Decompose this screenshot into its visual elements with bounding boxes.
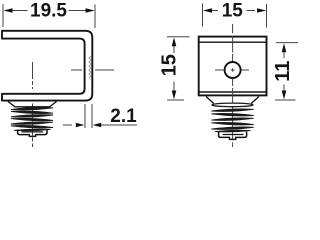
dimension 19.5 : extension line left: [2, 4, 4, 27]
dimension 15 left : down arrow: [172, 91, 177, 100]
svg-text:2.1: 2.1: [110, 106, 137, 127]
dimension 19.5 : right arrow: [86, 8, 95, 13]
dimension 11 right : up arrow: [282, 43, 287, 52]
dimension 19.5 : dimension line tails: [11, 10, 88, 12]
top chamfer line: [199, 41, 267, 43]
screw thread (left view): [11, 107, 53, 130]
dimension 19.5 : extension line right: [94, 5, 96, 29]
hole horizontal centerline: [215, 69, 249, 71]
dimension 2.1 : right arrow and tail: [99, 124, 137, 126]
screw collar chamfer (left view): [8, 102, 57, 108]
svg-text:15: 15: [158, 54, 180, 76]
knurl / thread marks inside right leg: [89, 56, 91, 78]
hole center marks: [231, 68, 235, 72]
dimension 11 right : down arrow: [282, 91, 287, 100]
hole circle: [225, 62, 241, 78]
screw axis centerline (left view): [32, 62, 34, 89]
hole centerline (horizontal) through leg: [71, 69, 114, 71]
screw collar chamfer (right view): [206, 97, 259, 104]
dimension 2.1 : left arrow and tail: [63, 124, 72, 126]
dimension 15 top : right arrow: [257, 8, 266, 13]
bracket body (C-profile): [2, 31, 92, 101]
dimension 15 left : dimension line shafts: [173, 46, 175, 92]
housing block: [199, 37, 267, 96]
svg-text:11: 11: [272, 61, 294, 82]
dimension 11 right : dimension line shafts: [283, 53, 285, 91]
screw tip with driver slot (left view): [18, 130, 47, 137]
svg-text:19.5: 19.5: [30, 1, 67, 22]
dimension 15 top : dimension line tails: [211, 10, 256, 12]
dimension 11 right (vertical) : extension lines: [275, 43, 298, 100]
dimension 15 top : extension lines: [203, 4, 267, 28]
dimension 15 left : up arrow: [172, 37, 177, 46]
bottom flange line: [199, 91, 267, 93]
screw thread (right view): [211, 109, 253, 132]
first thread crest (wide flat ellipse): [212, 103, 253, 107]
screw tip with driver slot (right view): [219, 132, 247, 140]
dimension 2.1 : extension lines: [85, 104, 92, 128]
vertical centerline (right view): [232, 24, 234, 147]
dimension 15 top : left arrow: [203, 8, 212, 13]
dimension 19.5 : left arrow: [4, 8, 13, 13]
svg-text:15: 15: [222, 1, 244, 22]
dimension 15 left (vertical) : extension lines: [167, 37, 190, 100]
